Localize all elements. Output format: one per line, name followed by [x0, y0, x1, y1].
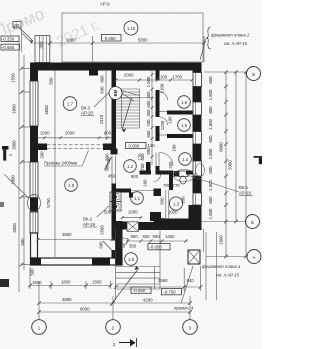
- left wall opening band: [30, 212, 38, 233]
- svg-text:1.8: 1.8: [68, 183, 75, 188]
- svg-text:170: 170: [138, 153, 143, 161]
- svg-text:1700: 1700: [173, 75, 183, 80]
- svg-text:1.10: 1.10: [127, 26, 136, 31]
- svg-text:450: 450: [108, 174, 116, 179]
- wall 1.7/1.8 with opening: [38, 144, 112, 151]
- svg-text:500: 500: [99, 241, 104, 249]
- elevation box -0.150: [1, 36, 19, 42]
- svg-text:300: 300: [39, 41, 44, 49]
- corridor wall pier 3: [156, 126, 160, 141]
- svg-text:ВК-1: ВК-1: [239, 185, 249, 190]
- svg-text:3650: 3650: [12, 223, 17, 233]
- door arc room 1.1: [154, 175, 161, 182]
- right wall window 1: [193, 73, 202, 87]
- watermark: [0, 4, 47, 41]
- svg-text:фрагмент плана 1: фрагмент плана 1: [202, 264, 241, 269]
- svg-text:-0.750: -0.750: [164, 290, 177, 295]
- svg-text:800: 800: [208, 106, 213, 114]
- svg-text:500: 500: [160, 197, 165, 205]
- corridor wall pier 4: [156, 166, 160, 175]
- svg-text:1.9: 1.9: [128, 257, 135, 262]
- svg-text:примеч. 4: примеч. 4: [174, 306, 194, 311]
- callout ellipse bottom-left: [5, 175, 41, 212]
- partition segment right of toilet: [186, 171, 193, 175]
- axis circle В: [247, 67, 261, 81]
- svg-text:8000: 8000: [219, 142, 224, 152]
- svg-text:1450: 1450: [165, 234, 175, 239]
- right wall window 2: [193, 102, 202, 115]
- porch width dims: [114, 232, 217, 300]
- svg-text:700: 700: [140, 163, 145, 171]
- right wall piers and windows: [193, 63, 202, 73]
- left wall pier top: [30, 71, 38, 82]
- svg-text:600: 600: [146, 130, 151, 138]
- inner room dims left: [40, 71, 56, 258]
- svg-text:100: 100: [143, 179, 148, 187]
- stair hall wall (vertical): [112, 71, 117, 155]
- svg-text:900: 900: [131, 174, 139, 179]
- boxed level -0.050 (entrance): [148, 244, 170, 250]
- right wall window 4: [193, 161, 202, 176]
- corridor wall pier 2: [156, 90, 160, 117]
- svg-text:-0.650: -0.650: [133, 288, 146, 293]
- axis circle 2: [106, 320, 121, 335]
- svg-text:1500: 1500: [32, 280, 42, 285]
- partition 1.6/1.5: [167, 111, 193, 115]
- svg-text:1550: 1550: [11, 73, 16, 83]
- svg-text:см. л.АР-15: см. л.АР-15: [224, 41, 248, 46]
- bathroom west door line 2: [168, 190, 170, 219]
- level box 0.000: [126, 143, 156, 149]
- svg-text:500: 500: [20, 238, 25, 246]
- svg-text:АР-20: АР-20: [81, 111, 94, 116]
- door arc room 1.5: [160, 117, 168, 125]
- svg-text:1500: 1500: [92, 280, 102, 285]
- svg-text:250: 250: [159, 217, 167, 222]
- svg-text:1800: 1800: [11, 175, 16, 185]
- svg-text:900: 900: [131, 234, 139, 239]
- wall stub below top wall: [89, 71, 98, 76]
- svg-text:1.3: 1.3: [173, 202, 180, 207]
- svg-text:5800: 5800: [138, 38, 148, 43]
- svg-text:1800: 1800: [61, 280, 71, 285]
- svg-text:-0.050: -0.050: [150, 245, 163, 250]
- svg-text:В: В: [252, 72, 255, 77]
- svg-text:100: 100: [160, 75, 168, 80]
- pier above lobby wall: [150, 212, 161, 221]
- svg-text:Д3: Д3: [14, 23, 20, 28]
- axis circle 3: [183, 320, 198, 335]
- porch up arrow: [110, 266, 139, 306]
- svg-text:100: 100: [172, 144, 177, 152]
- door arcs: [160, 92, 168, 100]
- svg-text:АР-19: АР-19: [83, 222, 96, 227]
- svg-text:300: 300: [146, 91, 151, 99]
- svg-text:0.000: 0.000: [129, 144, 140, 149]
- watermark 2021: [54, 17, 102, 51]
- right wall pier 4: [193, 144, 202, 161]
- vertical step wall between bottom walls: [115, 221, 123, 266]
- right wall pier 3: [193, 115, 202, 132]
- svg-text:3800: 3800: [62, 232, 72, 237]
- pier right of 1.3: [189, 205, 195, 219]
- partition above 1.1/1.3: [140, 171, 152, 175]
- svg-text:8000: 8000: [80, 307, 90, 312]
- door leaf into 1.8: [105, 157, 112, 170]
- bottom axis dimension lines 3800/4200/8000: [37, 281, 192, 320]
- right wall window 5: [193, 193, 202, 205]
- hall wall bottom stub: [112, 250, 117, 258]
- VK-2 label: [83, 206, 109, 227]
- corridor east wall (vertical): [156, 71, 160, 81]
- room circle 1.1: [131, 192, 144, 205]
- svg-text:1.7: 1.7: [67, 102, 74, 107]
- svg-text:9300: 9300: [228, 160, 233, 170]
- svg-text:1500: 1500: [128, 210, 138, 215]
- svg-text:350: 350: [129, 244, 137, 249]
- svg-text:1800: 1800: [12, 104, 17, 114]
- svg-text:300: 300: [105, 164, 110, 172]
- svg-text:1.5: 1.5: [181, 123, 188, 128]
- svg-text:4200: 4200: [143, 298, 153, 303]
- stair direction arrow: [122, 98, 132, 132]
- svg-text:-0.650: -0.650: [2, 45, 15, 50]
- sink symbol near lobby: [121, 239, 128, 245]
- boxed level -0.050 (top): [102, 35, 122, 42]
- fragment note 2 (top right): [200, 27, 250, 60]
- room circle 1.9: [125, 253, 138, 266]
- svg-text:840: 840: [187, 278, 195, 283]
- right wall pier 5: [193, 176, 202, 193]
- right wall pier 2: [193, 87, 202, 103]
- fixtures in 1.1 (VK-2): [110, 192, 121, 211]
- partition 1.6/1.5 door head: [160, 111, 168, 113]
- svg-text:2000: 2000: [12, 140, 17, 150]
- svg-text:2000: 2000: [124, 73, 134, 78]
- svg-text:640: 640: [100, 86, 105, 94]
- bottom-left wall: [31, 258, 123, 265]
- boxed level -0.750 (bottom): [162, 289, 182, 295]
- room circle 1.4: [179, 153, 192, 166]
- svg-text:1,800: 1,800: [208, 180, 213, 191]
- elevation box -0.650: [1, 44, 20, 50]
- svg-text:1800: 1800: [219, 235, 224, 245]
- pier left of bathroom: [154, 189, 162, 197]
- svg-text:1.1: 1.1: [134, 196, 141, 201]
- svg-text:800: 800: [208, 166, 213, 174]
- svg-text:2000: 2000: [65, 131, 75, 136]
- svg-text:1,800: 1,800: [208, 119, 213, 130]
- svg-text:500: 500: [30, 268, 35, 276]
- svg-text:130: 130: [148, 143, 156, 148]
- left wall pier bottom: [30, 198, 38, 212]
- svg-text:300: 300: [146, 109, 151, 117]
- svg-text:АР-9: АР-9: [100, 2, 110, 7]
- svg-text:2050: 2050: [168, 210, 178, 215]
- bottom wall corner fill: [30, 258, 41, 266]
- room circle 1.8: [65, 179, 78, 192]
- axis circle А: [247, 250, 261, 264]
- door jamb lines to room 1.4: [155, 153, 157, 167]
- entrance door opening: [127, 222, 139, 232]
- tick door dim: [121, 216, 124, 219]
- hatched column square (примеч.4): [188, 250, 200, 264]
- bottom-right exterior wall: [123, 222, 128, 230]
- door jamb line 2: [158, 153, 160, 167]
- room circle 1.6: [178, 96, 191, 109]
- svg-text:780 ,770: 780 ,770: [163, 183, 180, 188]
- door jamb stub above 1.1: [129, 193, 133, 198]
- bathroom west wall: [169, 175, 173, 191]
- axis circle Б: [246, 215, 260, 229]
- section mark 2 (bottom): [113, 338, 137, 347]
- svg-text:1,800: 1,800: [208, 148, 213, 159]
- ticks door dim: [121, 216, 142, 219]
- svg-text:1.4: 1.4: [182, 157, 189, 162]
- leader line from elevation boxes: [21, 29, 23, 52]
- bottom wall pier fill: [92, 258, 110, 266]
- door arc room 1.4: [160, 153, 174, 167]
- svg-text:1250: 1250: [160, 120, 165, 130]
- room circle 1.10: [124, 21, 138, 35]
- svg-text:800: 800: [208, 76, 213, 84]
- svg-text:900: 900: [153, 234, 161, 239]
- hall wall lower pier: [112, 184, 117, 241]
- svg-text:950: 950: [181, 196, 186, 204]
- svg-text:3800: 3800: [62, 297, 72, 302]
- VK-1 label: [187, 175, 253, 196]
- hall wall door gap lines: [115, 156, 117, 184]
- svg-text:5750: 5750: [46, 198, 51, 208]
- room circle 1.7: [63, 97, 77, 111]
- svg-text:100: 100: [168, 116, 173, 124]
- svg-text:200: 200: [40, 151, 45, 159]
- leader to wall corner: [22, 33, 31, 41]
- door leaf from 1.8: [103, 241, 112, 250]
- svg-text:800: 800: [208, 196, 213, 204]
- toilet in 1.3 (VK-1): [174, 171, 188, 184]
- chimney shaft block top-left: [35, 36, 50, 63]
- terrace outline above top wall: [62, 13, 203, 62]
- svg-text:3560: 3560: [158, 278, 168, 283]
- svg-text:ВК-2: ВК-2: [83, 217, 93, 222]
- boxed level -0.650 (bottom): [131, 287, 151, 293]
- axis circle 1: [32, 320, 47, 335]
- bathroom south wall: [154, 219, 193, 225]
- left edge dark box: [0, 279, 9, 287]
- VK-3 label: [81, 92, 110, 116]
- room 1.8 width dim 3800: [37, 232, 114, 241]
- hall top dims: [114, 73, 193, 82]
- svg-text:Б: Б: [251, 220, 254, 225]
- svg-text:2500: 2500: [100, 225, 105, 235]
- svg-text:600: 600: [146, 100, 151, 108]
- svg-text:А: А: [253, 255, 256, 260]
- svg-text:АР-18: АР-18: [239, 191, 252, 196]
- flue label D3 box with arrow: [13, 22, 33, 44]
- примеч. 4 note with leader: [174, 266, 194, 311]
- svg-text:700: 700: [146, 119, 151, 127]
- svg-text:Проёмы 2400мм: Проёмы 2400мм: [44, 161, 77, 166]
- left wall window W2: [30, 162, 38, 198]
- svg-text:800: 800: [104, 131, 112, 136]
- top wall: [30, 63, 202, 71]
- corridor bottom dim line: [122, 217, 141, 219]
- left wall pier mid: [30, 126, 38, 162]
- svg-text:1000: 1000: [40, 131, 50, 136]
- fragment note 1 (right): [202, 264, 241, 278]
- room circle 1.2: [124, 160, 137, 173]
- svg-text:1,800: 1,800: [208, 208, 213, 219]
- pier at partition corner: [146, 162, 151, 175]
- svg-text:см. л.АР-15: см. л.АР-15: [216, 273, 240, 278]
- svg-text:-0.050: -0.050: [104, 36, 117, 41]
- room circle 1.5: [178, 119, 191, 132]
- section flag at right edge: [254, 156, 263, 164]
- door gap lines above 1.1: [131, 190, 154, 192]
- dims around 1.2: [100, 144, 195, 235]
- wall above 1.1: [116, 189, 131, 193]
- svg-text:900: 900: [118, 244, 126, 249]
- svg-text:3850: 3850: [44, 105, 49, 115]
- VM damper circle on stair wall: [109, 87, 152, 100]
- svg-text:250: 250: [168, 161, 173, 169]
- section mark 1 (left edge): [2, 146, 13, 161]
- partition 1.5/1.4 door head: [160, 134, 168, 136]
- svg-text:800: 800: [208, 135, 213, 143]
- corridor dim chain x152: [146, 71, 173, 165]
- bottom-right wall east part: [139, 222, 202, 230]
- svg-text:2410: 2410: [99, 114, 104, 124]
- svg-text:500: 500: [105, 153, 110, 161]
- svg-text:1.6: 1.6: [181, 100, 188, 105]
- svg-text:600: 600: [143, 234, 151, 239]
- left edge small mark: [0, 202, 4, 207]
- openings note: [44, 151, 89, 167]
- bathroom west door lines: [165, 190, 167, 219]
- right wall window 3: [193, 132, 202, 145]
- svg-text:2100: 2100: [160, 83, 165, 93]
- svg-text:-0.250: -0.250: [2, 37, 15, 42]
- svg-text:1,500: 1,500: [146, 76, 151, 87]
- right wall pier 6: [193, 205, 202, 229]
- svg-text:1,800: 1,800: [208, 89, 213, 100]
- svg-text:800: 800: [100, 75, 105, 83]
- corridor wall pier: [111, 149, 118, 155]
- svg-text:500: 500: [104, 210, 112, 215]
- svg-text:ВМ: ВМ: [113, 89, 118, 96]
- svg-text:1800: 1800: [66, 38, 76, 43]
- room circle 1.3: [169, 197, 182, 210]
- partition segment east: [159, 171, 174, 175]
- svg-text:фрагмент плана 2: фрагмент плана 2: [211, 33, 250, 38]
- left wall hollow pier bottom: [31, 233, 38, 258]
- svg-text:1.2: 1.2: [127, 164, 134, 169]
- left wall window W1: [30, 81, 38, 126]
- hall wall continues down left of bath: [111, 156, 113, 184]
- callout ellipse on right wall: [196, 164, 205, 177]
- svg-text:500: 500: [49, 77, 54, 85]
- partition 1.5/1.4: [167, 134, 193, 138]
